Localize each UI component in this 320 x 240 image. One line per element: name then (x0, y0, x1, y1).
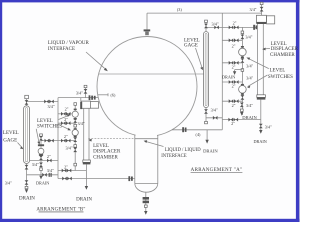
svg-text:DRAIN: DRAIN (222, 75, 235, 80)
svg-text:DISPLACER: DISPLACER (271, 47, 299, 52)
svg-text:LEVEL: LEVEL (270, 69, 286, 74)
svg-text:3/4": 3/4" (245, 35, 252, 40)
svg-text:2": 2" (233, 20, 237, 25)
svg-text:DRAIN: DRAIN (36, 181, 49, 186)
svg-text:3/4": 3/4" (47, 104, 54, 109)
svg-text:DISPLACER: DISPLACER (93, 150, 121, 155)
svg-text:3/4": 3/4" (66, 145, 73, 150)
svg-text:LEVEL: LEVEL (37, 119, 53, 124)
svg-text:DRAIN: DRAIN (242, 115, 257, 120)
svg-text:2": 2" (64, 134, 68, 139)
svg-text:DRAIN: DRAIN (76, 197, 92, 202)
svg-text:LEVEL: LEVEL (3, 131, 19, 136)
svg-text:3/4": 3/4" (5, 180, 12, 185)
svg-text:INTERFACE: INTERFACE (48, 47, 75, 52)
svg-text:DRAIN: DRAIN (19, 196, 35, 201)
svg-text:DRAIN: DRAIN (254, 139, 267, 144)
svg-text:2": 2" (232, 103, 236, 108)
svg-text:3/4": 3/4" (249, 7, 256, 12)
svg-text:LIQUID / VAPOUR: LIQUID / VAPOUR (48, 41, 90, 46)
svg-text:2": 2" (232, 83, 236, 88)
svg-text:3/4": 3/4" (78, 121, 85, 126)
svg-text:3/4": 3/4" (246, 75, 253, 80)
svg-text:(6): (6) (111, 92, 116, 97)
svg-text:GAGE: GAGE (3, 139, 17, 144)
svg-text:DRAIN: DRAIN (203, 148, 218, 153)
svg-text:2": 2" (64, 165, 68, 170)
svg-text:2": 2" (64, 117, 68, 122)
svg-text:2": 2" (65, 106, 69, 111)
svg-text:LEVEL: LEVEL (271, 42, 287, 47)
svg-text:3/4": 3/4" (212, 21, 219, 26)
svg-text:3/4": 3/4" (47, 168, 54, 173)
svg-text:LIQUID / LIQUID: LIQUID / LIQUID (165, 148, 202, 153)
svg-text:2": 2" (232, 43, 236, 48)
svg-text:CHAMBER: CHAMBER (93, 155, 118, 160)
svg-text:CHAMBER: CHAMBER (270, 53, 295, 58)
svg-text:(4): (4) (196, 132, 201, 137)
svg-text:3/4": 3/4" (76, 90, 83, 95)
svg-text:(3): (3) (177, 7, 182, 12)
svg-text:3/4": 3/4" (32, 162, 39, 167)
svg-text:2": 2" (232, 64, 236, 69)
svg-text:SWITCHES: SWITCHES (37, 125, 62, 130)
svg-text:2": 2" (47, 154, 51, 159)
svg-text:ARRANGEMENT "A": ARRANGEMENT "A" (191, 168, 243, 173)
svg-text:LEVEL: LEVEL (93, 144, 109, 149)
svg-text:2": 2" (231, 121, 235, 126)
svg-text:INTERFACE: INTERFACE (161, 154, 187, 159)
svg-text:3/4": 3/4" (265, 124, 272, 129)
svg-text:3/4": 3/4" (211, 108, 218, 113)
svg-text:3/4": 3/4" (246, 103, 253, 108)
svg-text:SWITCHES: SWITCHES (268, 75, 293, 80)
svg-text:3/4": 3/4" (246, 63, 253, 68)
